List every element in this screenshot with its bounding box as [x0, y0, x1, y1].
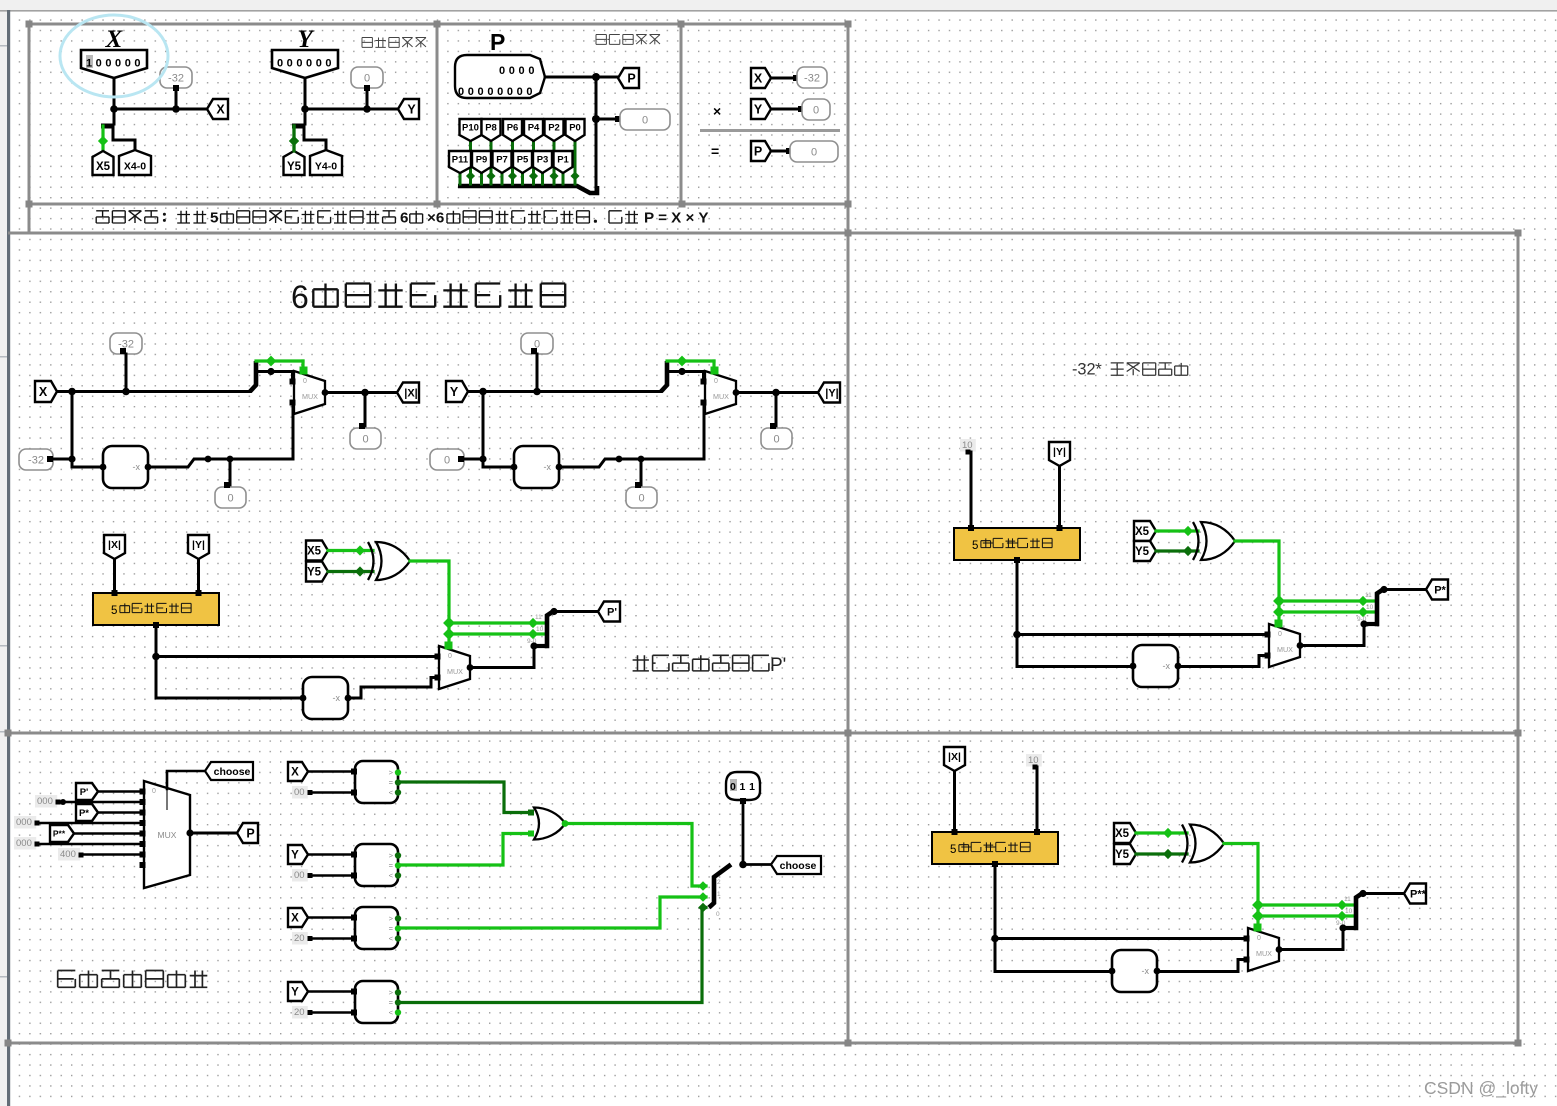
svg-text:0: 0 [364, 73, 370, 85]
svg-text:Y: Y [450, 385, 459, 399]
svg-text:=: = [389, 778, 394, 787]
svg-text:-32*: -32* [1072, 360, 1103, 378]
svg-text:-x: -x [1142, 966, 1150, 976]
svg-text:0 0 0 0 0 0: 0 0 0 0 0 0 [277, 58, 332, 70]
svg-text:11: 11 [535, 614, 542, 621]
svg-text:20: 20 [294, 1007, 305, 1018]
svg-text:X5: X5 [96, 161, 111, 173]
svg-text:P3: P3 [537, 154, 549, 165]
svg-text:-x: -x [544, 462, 552, 472]
svg-text:000: 000 [16, 838, 32, 849]
svg-text:10: 10 [1366, 604, 1374, 611]
svg-text:MUX: MUX [302, 392, 318, 401]
svg-text:P*: P* [1434, 585, 1446, 597]
svg-text:MUX: MUX [1277, 645, 1293, 654]
svg-text:0 0 0 0 0 0 0 0: 0 0 0 0 0 0 0 0 [458, 86, 533, 98]
svg-text:P9: P9 [476, 154, 488, 165]
svg-text:|Y|: |Y| [825, 388, 839, 400]
svg-text:0 1 1: 0 1 1 [730, 781, 755, 793]
svg-text:X5: X5 [1115, 828, 1130, 840]
svg-text:X4-0: X4-0 [124, 160, 146, 172]
svg-text:P8: P8 [485, 122, 497, 133]
svg-text:Y5: Y5 [1135, 546, 1150, 558]
svg-text:Y5: Y5 [287, 161, 302, 173]
svg-text:0: 0 [1257, 935, 1261, 942]
svg-text:Y: Y [407, 103, 416, 117]
svg-text:0: 0 [362, 434, 368, 446]
svg-text:X: X [39, 385, 48, 399]
svg-text:5: 5 [210, 210, 219, 227]
svg-text:choose: choose [214, 766, 251, 778]
svg-text:MUX: MUX [1256, 949, 1272, 958]
svg-text:5: 5 [972, 540, 978, 552]
svg-text:P: P [754, 145, 762, 159]
svg-text:|Y|: |Y| [1053, 446, 1066, 458]
svg-text:0: 0 [811, 147, 817, 159]
svg-text:400: 400 [60, 849, 76, 860]
svg-text:P10: P10 [462, 122, 479, 133]
svg-text:P = X × Y: P = X × Y [644, 210, 708, 227]
svg-text:0: 0 [642, 115, 648, 127]
svg-text:Y: Y [754, 103, 763, 117]
svg-text:X: X [216, 103, 225, 117]
svg-text:|X|: |X| [404, 388, 418, 400]
svg-text:>: > [389, 988, 394, 997]
svg-text:0: 0 [773, 434, 779, 446]
svg-text:P2: P2 [548, 122, 560, 133]
svg-text:Y: Y [291, 850, 299, 862]
svg-text:CSDN @_lofty: CSDN @_lofty [1424, 1078, 1538, 1099]
svg-text:P: P [246, 827, 254, 841]
svg-text:<: < [389, 871, 394, 880]
svg-text:>: > [389, 914, 394, 923]
svg-text:0: 0 [638, 493, 644, 505]
svg-text:0: 0 [227, 493, 233, 505]
svg-text:×6: ×6 [427, 210, 444, 227]
svg-text:X: X [754, 72, 763, 86]
svg-text:-32: -32 [28, 455, 44, 467]
svg-text:20: 20 [294, 933, 305, 944]
svg-text:-32: -32 [168, 73, 184, 85]
svg-text:P**: P** [53, 829, 66, 839]
svg-text:10: 10 [962, 440, 973, 451]
svg-text:1: 1 [717, 891, 721, 898]
svg-text:10: 10 [1028, 755, 1039, 766]
svg-text:00: 00 [294, 787, 305, 798]
svg-text:0 0 0 0: 0 0 0 0 [499, 65, 535, 77]
svg-text:P: P [490, 29, 505, 55]
svg-text:>: > [389, 851, 394, 860]
svg-text:P4: P4 [528, 122, 540, 133]
svg-text:|Y|: |Y| [192, 539, 205, 551]
svg-text:6: 6 [291, 279, 309, 315]
svg-text:000: 000 [16, 817, 32, 828]
svg-text:000: 000 [37, 796, 53, 807]
svg-text:-x: -x [333, 693, 341, 703]
svg-text:0: 0 [444, 455, 450, 467]
svg-text:X: X [291, 913, 299, 925]
svg-text:=: = [711, 143, 719, 159]
svg-text:-32: -32 [804, 73, 820, 85]
svg-text:X: X [291, 767, 299, 779]
svg-text:10: 10 [536, 626, 544, 633]
svg-text:2: 2 [717, 879, 721, 886]
svg-text:=: = [389, 861, 394, 870]
svg-text:P': P' [770, 655, 786, 676]
svg-text:P11: P11 [452, 154, 469, 165]
svg-text:|X|: |X| [108, 539, 121, 551]
svg-text:MUX: MUX [713, 392, 729, 401]
svg-text:X5: X5 [307, 546, 322, 558]
svg-text:0: 0 [714, 378, 718, 385]
svg-text:|X|: |X| [948, 751, 961, 763]
svg-text:Y5: Y5 [307, 567, 322, 579]
svg-text:<: < [389, 788, 394, 797]
svg-text:-x: -x [133, 462, 141, 472]
svg-text:P': P' [80, 787, 89, 798]
svg-text:1 0 0 0 0 0: 1 0 0 0 0 0 [86, 58, 141, 70]
svg-text:10: 10 [1345, 908, 1353, 915]
svg-text:P1: P1 [557, 154, 569, 165]
svg-text:6: 6 [400, 210, 408, 227]
svg-text:P0: P0 [569, 122, 581, 133]
svg-text:P: P [627, 72, 635, 86]
svg-text:=: = [389, 924, 394, 933]
svg-text:<: < [389, 934, 394, 943]
svg-text:choose: choose [780, 860, 817, 872]
svg-text:5: 5 [950, 844, 956, 856]
svg-text:<: < [389, 1008, 394, 1017]
svg-text:×: × [713, 103, 721, 119]
svg-text:Y5: Y5 [1115, 849, 1130, 861]
svg-text:0: 0 [716, 911, 720, 918]
svg-text:MUX: MUX [447, 667, 463, 676]
svg-text:0: 0 [303, 378, 307, 385]
svg-text:0: 0 [448, 653, 452, 660]
svg-text:=: = [389, 998, 394, 1007]
svg-text:5: 5 [111, 605, 117, 617]
svg-text:11: 11 [1344, 896, 1351, 903]
svg-text:0: 0 [813, 105, 819, 117]
svg-text:Y: Y [291, 987, 299, 999]
svg-text:0: 0 [1278, 631, 1282, 638]
svg-text:11: 11 [1365, 592, 1372, 599]
svg-text:>: > [389, 768, 394, 777]
svg-text:P**: P** [1410, 889, 1427, 901]
svg-text:MUX: MUX [158, 830, 177, 840]
svg-text:0: 0 [152, 788, 156, 795]
svg-text:Y4-0: Y4-0 [315, 160, 337, 172]
svg-text:P': P' [607, 607, 617, 619]
svg-text:X5: X5 [1135, 526, 1150, 538]
svg-text:P*: P* [79, 808, 89, 819]
svg-text:P7: P7 [496, 154, 508, 165]
svg-text:-x: -x [1163, 661, 1171, 671]
svg-text:P6: P6 [507, 122, 519, 133]
svg-text:00: 00 [294, 870, 305, 881]
svg-text:P5: P5 [517, 154, 529, 165]
